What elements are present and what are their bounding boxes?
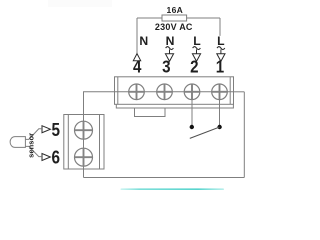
mounting tab	[135, 108, 166, 117]
terminal block inner rail left	[117, 77, 119, 105]
squiggle terminal 1	[217, 47, 225, 50]
screw terminal 4	[129, 84, 145, 100]
svg-text:3: 3	[162, 56, 170, 77]
arrow up terminal 4	[133, 54, 140, 63]
squiggle terminal 2	[193, 47, 201, 50]
svg-text:2: 2	[190, 56, 198, 77]
squiggle terminal 3	[166, 47, 174, 50]
strip under block	[116, 104, 233, 108]
wire terminal4 to sensor block	[84, 92, 115, 115]
contact dot right	[217, 125, 221, 129]
screw terminal 5	[75, 121, 93, 139]
terminal block main outline	[115, 77, 234, 105]
contact dot left	[190, 125, 194, 129]
wire bottom run	[84, 177, 245, 179]
arrow down terminal 3	[165, 54, 173, 62]
svg-text:N: N	[166, 34, 175, 48]
wire through sensor terminals down	[83, 115, 85, 178]
sensor wire upper	[25, 129, 42, 140]
fuse F1	[162, 15, 187, 21]
svg-text:N: N	[139, 34, 148, 48]
arrow into terminal 5	[42, 126, 50, 133]
arrow into terminal 6	[42, 154, 50, 161]
screw terminal 2	[184, 84, 200, 100]
screw terminal 1	[212, 84, 228, 100]
wire left supply drop to terminal 4	[136, 18, 138, 53]
sensor wire lower	[25, 146, 42, 156]
svg-text:sensor: sensor	[26, 133, 35, 158]
block midline wire	[115, 91, 234, 93]
sensor block inner rail right	[99, 115, 101, 170]
screw terminal 3	[157, 84, 173, 100]
wire supply top horizontal	[137, 17, 220, 19]
svg-text:1: 1	[216, 56, 224, 77]
svg-text:L: L	[217, 34, 225, 48]
wire right riser	[243, 92, 245, 178]
svg-text:L: L	[193, 34, 201, 48]
wire right supply drop to terminal 1	[219, 18, 221, 36]
svg-text:230V AC: 230V AC	[155, 22, 193, 32]
sensor block inner rail left	[67, 115, 69, 170]
screw terminal 6	[75, 148, 93, 166]
arrow down terminal 1	[217, 54, 225, 62]
svg-text:5: 5	[52, 120, 60, 141]
arrow down terminal 2	[192, 54, 200, 62]
wire terminal 2 down to contact	[191, 85, 193, 125]
wire to terminal 1	[234, 91, 245, 93]
wire terminal 1 down to contact	[219, 85, 221, 125]
sensor probe body	[10, 137, 25, 148]
relay switch blade	[190, 127, 220, 138]
faint artifact rectangle top-left	[48, 0, 112, 7]
svg-text:16A: 16A	[167, 5, 184, 15]
svg-text:4: 4	[133, 56, 142, 77]
terminal block inner rail right	[229, 77, 231, 105]
sensor block outline	[64, 115, 104, 170]
svg-text:6: 6	[52, 147, 60, 168]
